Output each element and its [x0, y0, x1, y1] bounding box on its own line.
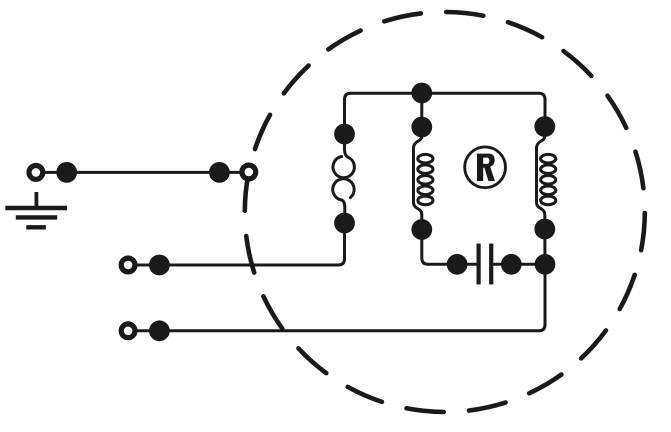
coupling element (two-ring symbol): [333, 134, 355, 223]
wire: capacitor to right branch: [493, 263, 545, 266]
terminal T2 (on shield): [242, 165, 256, 179]
letter R: [477, 154, 495, 181]
inductor L1 (middle coil): [414, 127, 434, 230]
wire: middle branch down to capacitor row: [422, 230, 477, 265]
junction dot L2 bottom: [534, 219, 555, 240]
junction dot coupling element bottom: [334, 213, 355, 234]
wire: middle lead from terminal T3 up to coupling element: [136, 223, 345, 265]
junction dot L1 bottom: [411, 219, 432, 240]
capacitor C1: [479, 244, 492, 285]
terminal T1 (antenna): [29, 166, 43, 180]
terminal T3: [121, 258, 135, 272]
wire: bottom lead from terminal T4 to right branch: [136, 264, 545, 331]
junction dot coupling element top: [334, 124, 355, 145]
junction dot capacitor right: [501, 254, 522, 275]
wire: right branch between coil and capacitor junction: [543, 229, 546, 266]
regeneration marking R: [465, 147, 506, 188]
junction dot on bottom lead: [149, 320, 170, 341]
wire: antenna lead from terminal T1 to terminal T2: [42, 171, 242, 174]
ground: [5, 192, 67, 227]
junction dot right branch / capacitor row: [535, 254, 556, 275]
terminal T4: [121, 324, 135, 338]
junction dot on antenna lead (left): [56, 162, 77, 183]
wire: top bus: [345, 93, 546, 134]
junction dot top bus center: [411, 83, 432, 104]
junction dot L1 top: [411, 117, 432, 138]
wire: middle branch vertical (top): [420, 93, 423, 134]
junction dot on middle lead: [149, 255, 170, 276]
inductor L2 (right coil): [537, 127, 556, 230]
junction dot capacitor left: [447, 254, 468, 275]
junction dot L2 top: [534, 116, 555, 137]
junction dot on antenna lead (right): [209, 162, 230, 183]
shield boundary (dashed circle): [245, 12, 645, 412]
